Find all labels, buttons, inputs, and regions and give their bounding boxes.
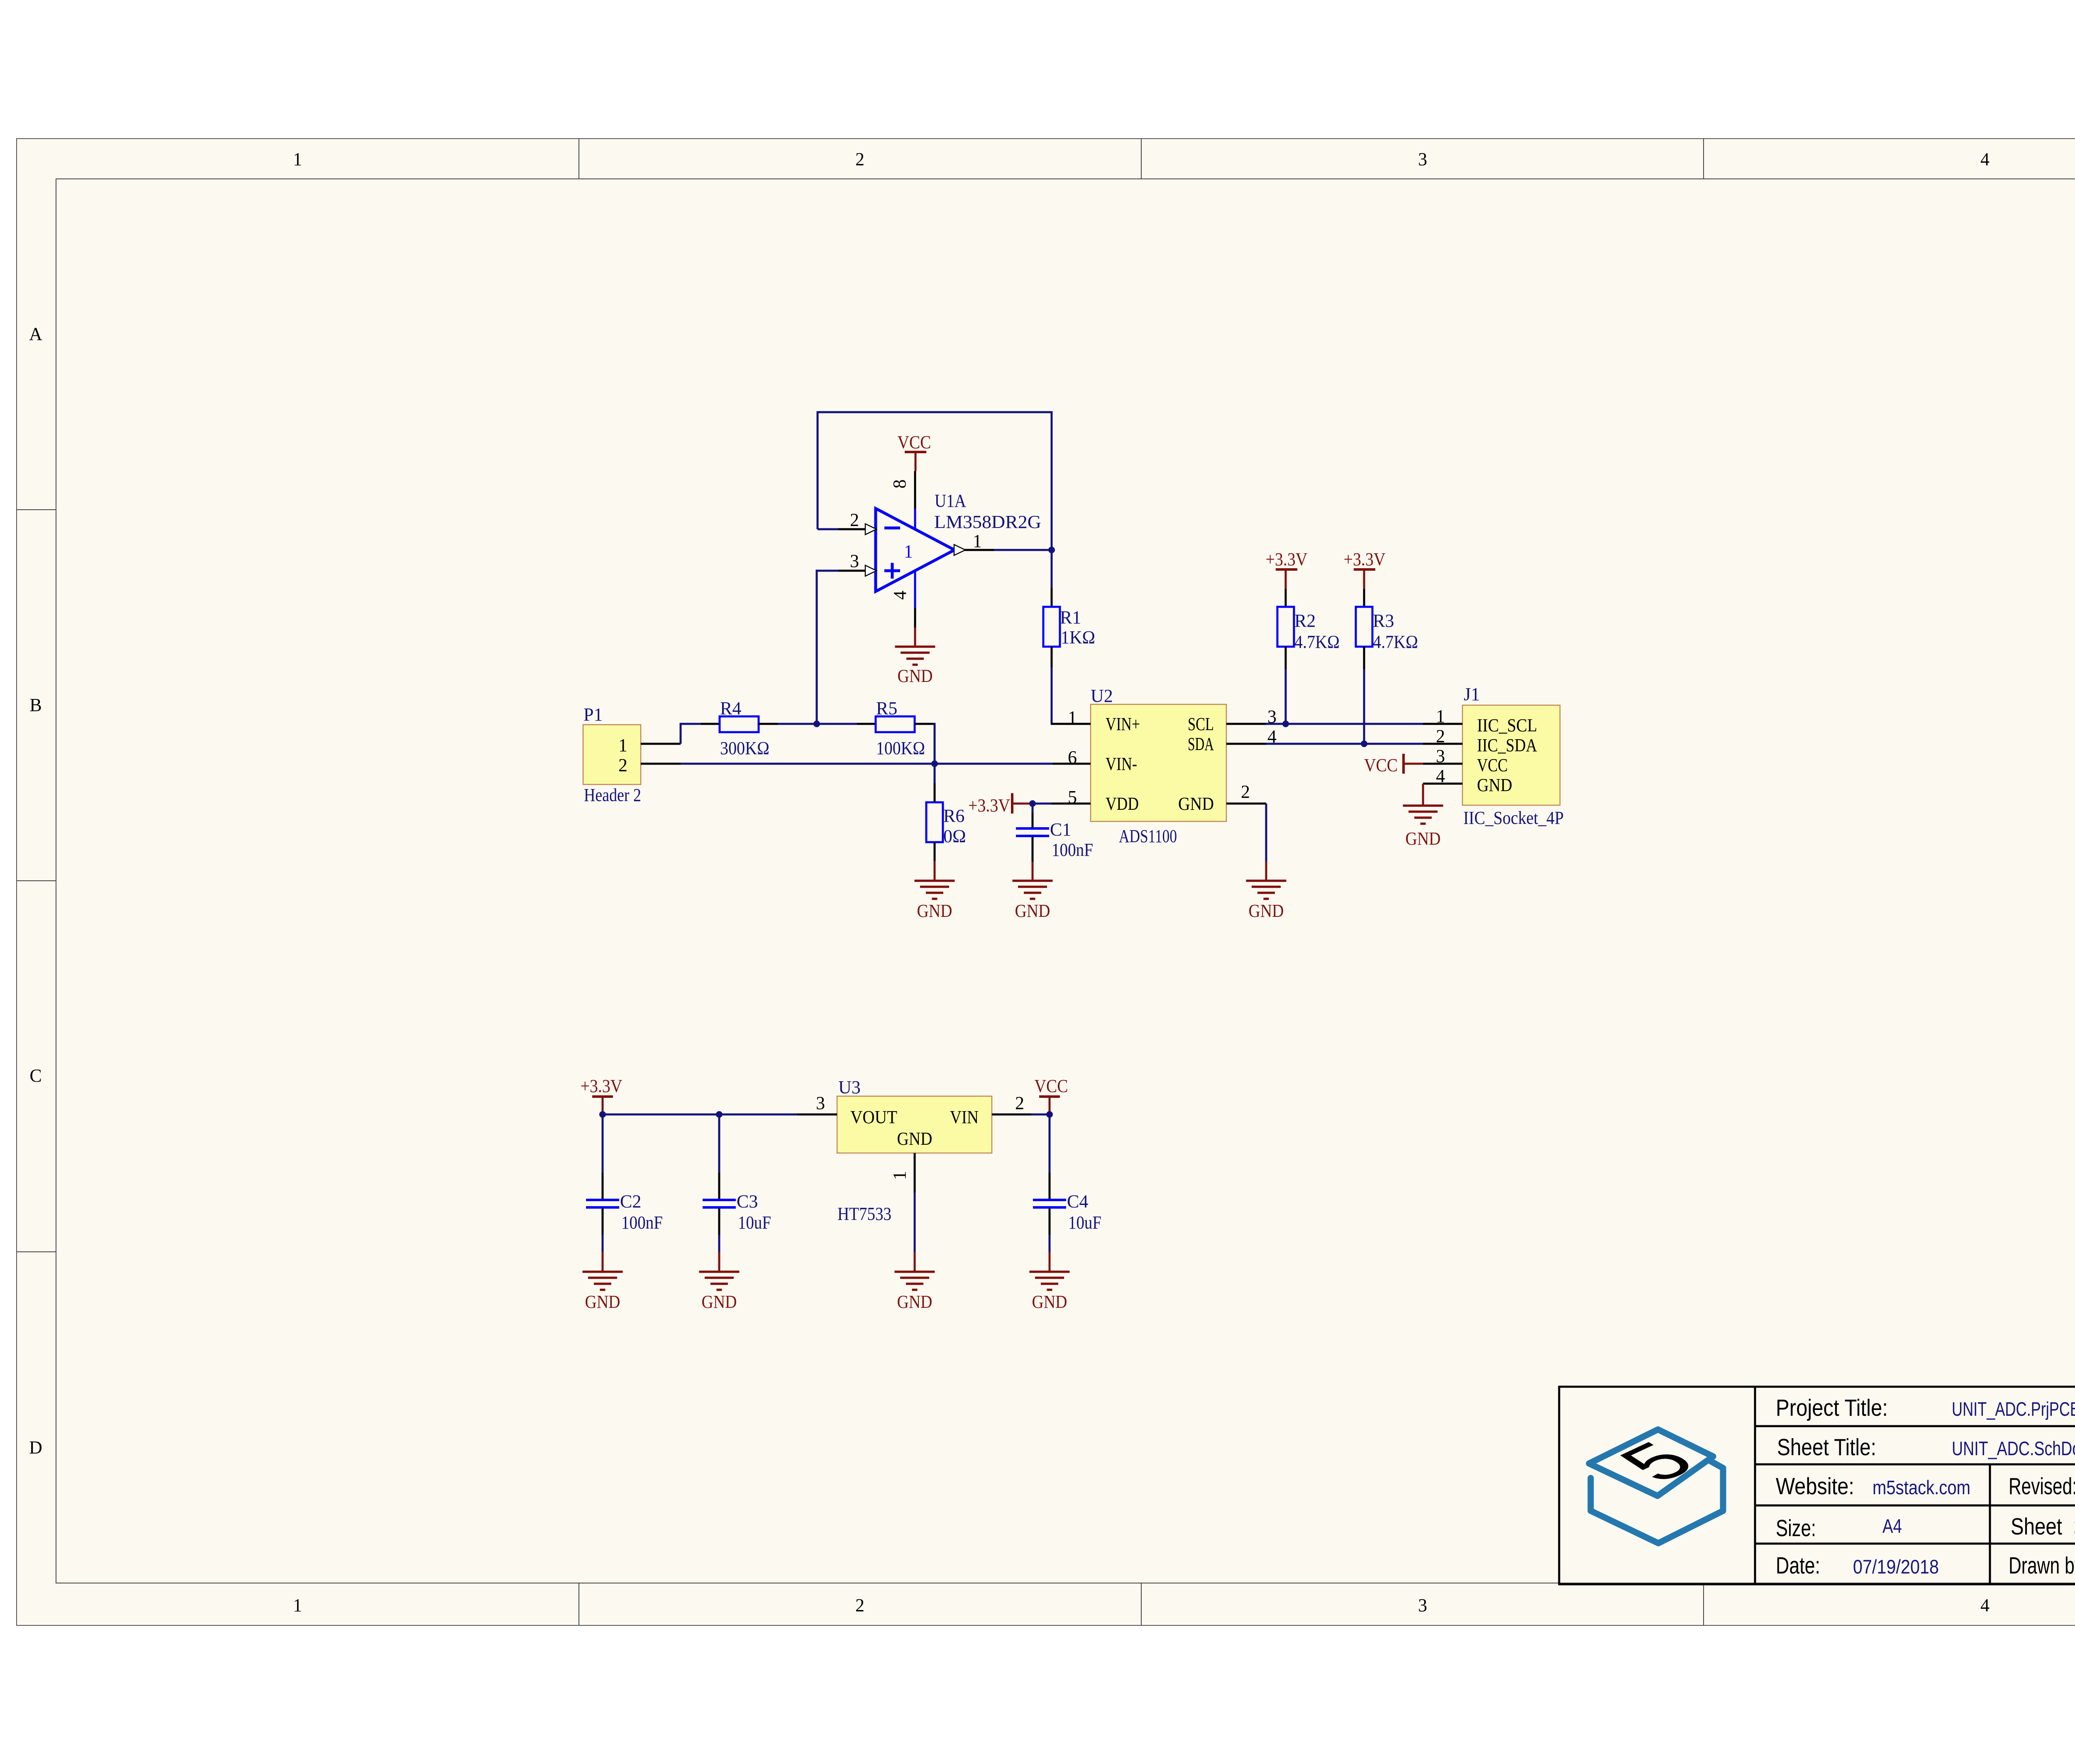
svg-text:10uF: 10uF [738,1212,771,1233]
svg-text:GND: GND [917,901,952,921]
svg-text:GND: GND [702,1292,737,1312]
pin 2 of J1 [1423,726,1462,746]
svg-text:3: 3 [850,551,859,571]
svg-text:2: 2 [618,755,627,775]
svg-text:VIN+: VIN+ [1106,714,1140,734]
svg-text:6: 6 [1068,747,1077,767]
svg-text:4.7KΩ: 4.7KΩ [1294,632,1340,652]
pin 6 of U2 [1053,747,1091,767]
ground at C3 [699,1252,740,1312]
svg-text:100KΩ: 100KΩ [876,738,925,758]
svg-text:Revised:: Revised: [2009,1473,2075,1500]
svg-text:R2: R2 [1294,611,1316,631]
power VCC at U3 VIN [1035,1076,1068,1114]
node R4 R5 pin3 [813,721,820,727]
wire VDD node [1033,803,1052,805]
svg-text:2: 2 [855,1595,864,1615]
resistor R5 [857,698,933,758]
node C4 VCC [1046,1111,1053,1118]
svg-text:U2: U2 [1091,686,1113,706]
svg-text:IIC_SCL: IIC_SCL [1477,715,1537,735]
wire SCL net [1266,723,1423,725]
svg-text:R4: R4 [720,698,741,718]
svg-text:C3: C3 [737,1191,758,1212]
svg-text:Header 2: Header 2 [584,785,641,805]
svg-text:+3.3V: +3.3V [1266,549,1308,569]
wire R2 to SCL [1285,669,1287,724]
svg-text:B: B [29,695,41,715]
svg-text:UNIT_ADC.PrjPCB: UNIT_ADC.PrjPCB [1952,1398,2075,1420]
node VDD C1 [1029,800,1036,807]
svg-text:3: 3 [1418,1595,1427,1615]
svg-text:3: 3 [1418,149,1427,169]
svg-text:2: 2 [855,149,864,169]
svg-text:1: 1 [889,1171,910,1180]
IC U3 HT7533 [837,1077,992,1224]
svg-text:GND: GND [1015,901,1050,921]
node C2 [599,1111,606,1118]
svg-text:C2: C2 [620,1191,641,1212]
ground at C1 [1013,862,1053,921]
svg-text:U3: U3 [838,1077,861,1097]
svg-text:Date:: Date: [1776,1552,1820,1579]
svg-text:4.7KΩ: 4.7KΩ [1373,632,1418,652]
svg-text:SDA: SDA [1188,734,1214,754]
svg-text:10uF: 10uF [1068,1212,1101,1233]
svg-text:1: 1 [1436,706,1445,726]
ground at C4 [1030,1252,1070,1312]
pin 5 of U2 [1052,787,1091,807]
svg-text:2: 2 [1241,782,1250,802]
pin 1 of P1 [618,735,681,755]
svg-text:GND: GND [897,1292,933,1312]
svg-text:A4: A4 [1882,1515,1902,1537]
svg-text:1: 1 [293,149,302,169]
wire R5 to VIN- net [933,724,935,764]
svg-text:VIN: VIN [950,1107,979,1127]
svg-text:Website:: Website: [1776,1473,1854,1500]
power +3.3V at R3 [1344,549,1386,589]
svg-text:+3.3V: +3.3V [968,795,1010,816]
svg-text:R5: R5 [876,698,897,718]
svg-text:C: C [29,1065,41,1086]
svg-text:GND: GND [1032,1292,1067,1312]
ground at U2 pin2 [1246,862,1286,921]
svg-text:1: 1 [904,541,913,562]
wire U2 GND down [1265,804,1267,862]
svg-text:GND: GND [1249,901,1284,921]
svg-text:+3.3V: +3.3V [1344,549,1386,569]
ground at C2 [583,1252,623,1312]
pin 2 of U3 [992,1093,1031,1114]
pin 3 of U2 SCL [1226,706,1277,727]
wire P1 pin2 to VIN- [681,763,1053,765]
ground at R6 [915,861,955,921]
svg-text:1: 1 [973,531,982,551]
svg-text:4: 4 [1980,1595,1990,1615]
ground at J1 pin4 [1403,784,1443,849]
svg-text:m5stack.com: m5stack.com [1872,1476,1970,1498]
resistor R1 [1043,550,1095,667]
power +3.3V at U3 out [581,1076,622,1114]
svg-text:5: 5 [1068,787,1077,807]
pin 4 of U2 SDA [1226,726,1277,747]
power +3.3V at VDD [968,793,1033,816]
svg-text:J1: J1 [1464,684,1480,704]
wire U3 GND down [914,1192,916,1252]
pin 8 of U1A [889,471,915,529]
svg-text:8: 8 [889,479,910,489]
svg-text:2: 2 [1436,726,1445,746]
svg-text:ADS1100: ADS1100 [1119,826,1177,846]
wire SDA net [1266,743,1423,745]
capacitor C4 [1033,1114,1101,1235]
power +3.3V at R2 [1266,549,1308,589]
svg-text:HT7533: HT7533 [837,1204,891,1224]
svg-text:R3: R3 [1373,611,1394,631]
svg-text:4: 4 [1980,149,1990,169]
svg-text:IIC_SDA: IIC_SDA [1477,735,1537,755]
wire C2 to ground [602,1235,604,1252]
wire C3 to ground [718,1235,720,1252]
pin 1 of U3 [889,1153,915,1192]
pin 4 of U1A [890,571,915,628]
capacitor C3 [703,1114,771,1235]
wire feedback top [818,412,1052,550]
title block [1559,1387,2075,1584]
power VCC at U1A [898,432,931,471]
pin 2 of U1A [838,510,876,535]
connector P1 [583,704,641,805]
capacitor C2 [586,1114,663,1235]
svg-text:300KΩ: 300KΩ [720,738,769,758]
node output junction [1048,547,1055,553]
svg-text:UNIT_ADC.SchDoc: UNIT_ADC.SchDoc [1952,1437,2075,1459]
pin 2 of P1 [618,755,681,775]
svg-text:VCC: VCC [898,432,931,452]
svg-text:1: 1 [1068,707,1077,728]
svg-text:Sheet: Sheet [2011,1513,2062,1540]
svg-text:GND: GND [585,1292,620,1312]
wire node to R5 [817,723,857,725]
resistor R3 [1356,589,1418,669]
wire R4 to node [778,723,817,725]
pin 2 of U2 GND [1226,782,1266,804]
svg-text:LM358DR2G: LM358DR2G [934,512,1041,532]
op-amp U1A [876,491,1041,591]
svg-text:P1: P1 [583,704,603,725]
svg-text:07/19/2018: 07/19/2018 [1853,1556,1939,1578]
svg-text:2: 2 [850,510,859,530]
svg-text:3: 3 [816,1093,825,1113]
svg-text:1KΩ: 1KΩ [1061,627,1095,647]
wire P1 pin1 to R4 [681,724,701,744]
node C3 [716,1111,723,1118]
svg-text:+3.3V: +3.3V [581,1076,622,1096]
pin 1 of U2 [1051,707,1091,728]
wire op-amp pin2 [818,528,838,530]
wire output to R1 [994,549,1052,551]
svg-text:2: 2 [1015,1093,1024,1113]
svg-text:GND: GND [898,666,933,686]
svg-text:100nF: 100nF [621,1212,663,1233]
resistor R6 [926,764,966,861]
svg-text:4: 4 [1436,766,1445,786]
svg-text:R1: R1 [1060,607,1081,628]
pin 1 of U1A output [954,531,994,555]
pin 3 of U1A [838,551,876,576]
wire R3 to SDA [1363,669,1365,744]
connector J1 [1462,684,1564,828]
pin 1 of J1 [1423,706,1462,726]
svg-text:VIN-: VIN- [1106,754,1137,774]
svg-text:1: 1 [618,735,627,755]
wire op-amp pin3 to node [817,571,838,724]
ground at U3 pin1 [895,1252,935,1312]
svg-text:Drawn by:: Drawn by: [2009,1552,2075,1579]
resistor R2 [1277,589,1340,669]
svg-text:VCC: VCC [1477,755,1508,775]
svg-text:Project Title:: Project Title: [1776,1395,1888,1421]
wire +3.3V rail to U3 VOUT [603,1114,797,1116]
capacitor C1 [1016,804,1093,862]
svg-text:VCC: VCC [1035,1076,1068,1096]
svg-text:C4: C4 [1067,1191,1088,1212]
pin 4 of J1 [1423,766,1462,786]
svg-text:A: A [29,324,42,344]
power VCC at J1 pin3 [1364,754,1423,775]
svg-text:U1A: U1A [935,491,966,511]
M5Stack logo [1589,1429,1723,1543]
svg-text:1: 1 [293,1595,302,1615]
wire R1 to VIN+ [1051,667,1052,724]
svg-text:GND: GND [897,1129,933,1149]
svg-text:3: 3 [1436,746,1445,766]
node R6 tap [931,760,938,767]
svg-text:VCC: VCC [1364,755,1398,775]
resistor R4 [701,698,778,758]
svg-text:IIC_Socket_4P: IIC_Socket_4P [1463,808,1564,828]
wire U3 VIN to node [1031,1114,1050,1116]
svg-text:R6: R6 [943,806,964,826]
wire C4 to ground [1049,1235,1051,1252]
svg-text:Sheet Title:: Sheet Title: [1777,1434,1876,1461]
svg-text:C1: C1 [1050,819,1071,840]
svg-text:GND: GND [1477,775,1512,795]
svg-text:4: 4 [890,591,910,600]
svg-text:D: D [29,1437,42,1458]
svg-text:100nF: 100nF [1052,840,1093,860]
svg-text:0Ω: 0Ω [943,826,966,846]
pin 3 of U3 [797,1093,837,1114]
pin 3 of J1 [1423,746,1462,766]
node SDA R3 [1361,740,1367,747]
svg-text:VOUT: VOUT [850,1107,897,1127]
ground at U1A pin4 [895,628,935,686]
svg-text:VDD: VDD [1106,794,1139,814]
IC U2 ADS1100 [1091,686,1226,846]
svg-text:GND: GND [1406,828,1441,849]
svg-text:SCL: SCL [1188,714,1214,734]
node SCL R2 [1282,721,1289,727]
svg-text:GND: GND [1178,794,1214,814]
svg-text:Size:: Size: [1776,1515,1816,1542]
